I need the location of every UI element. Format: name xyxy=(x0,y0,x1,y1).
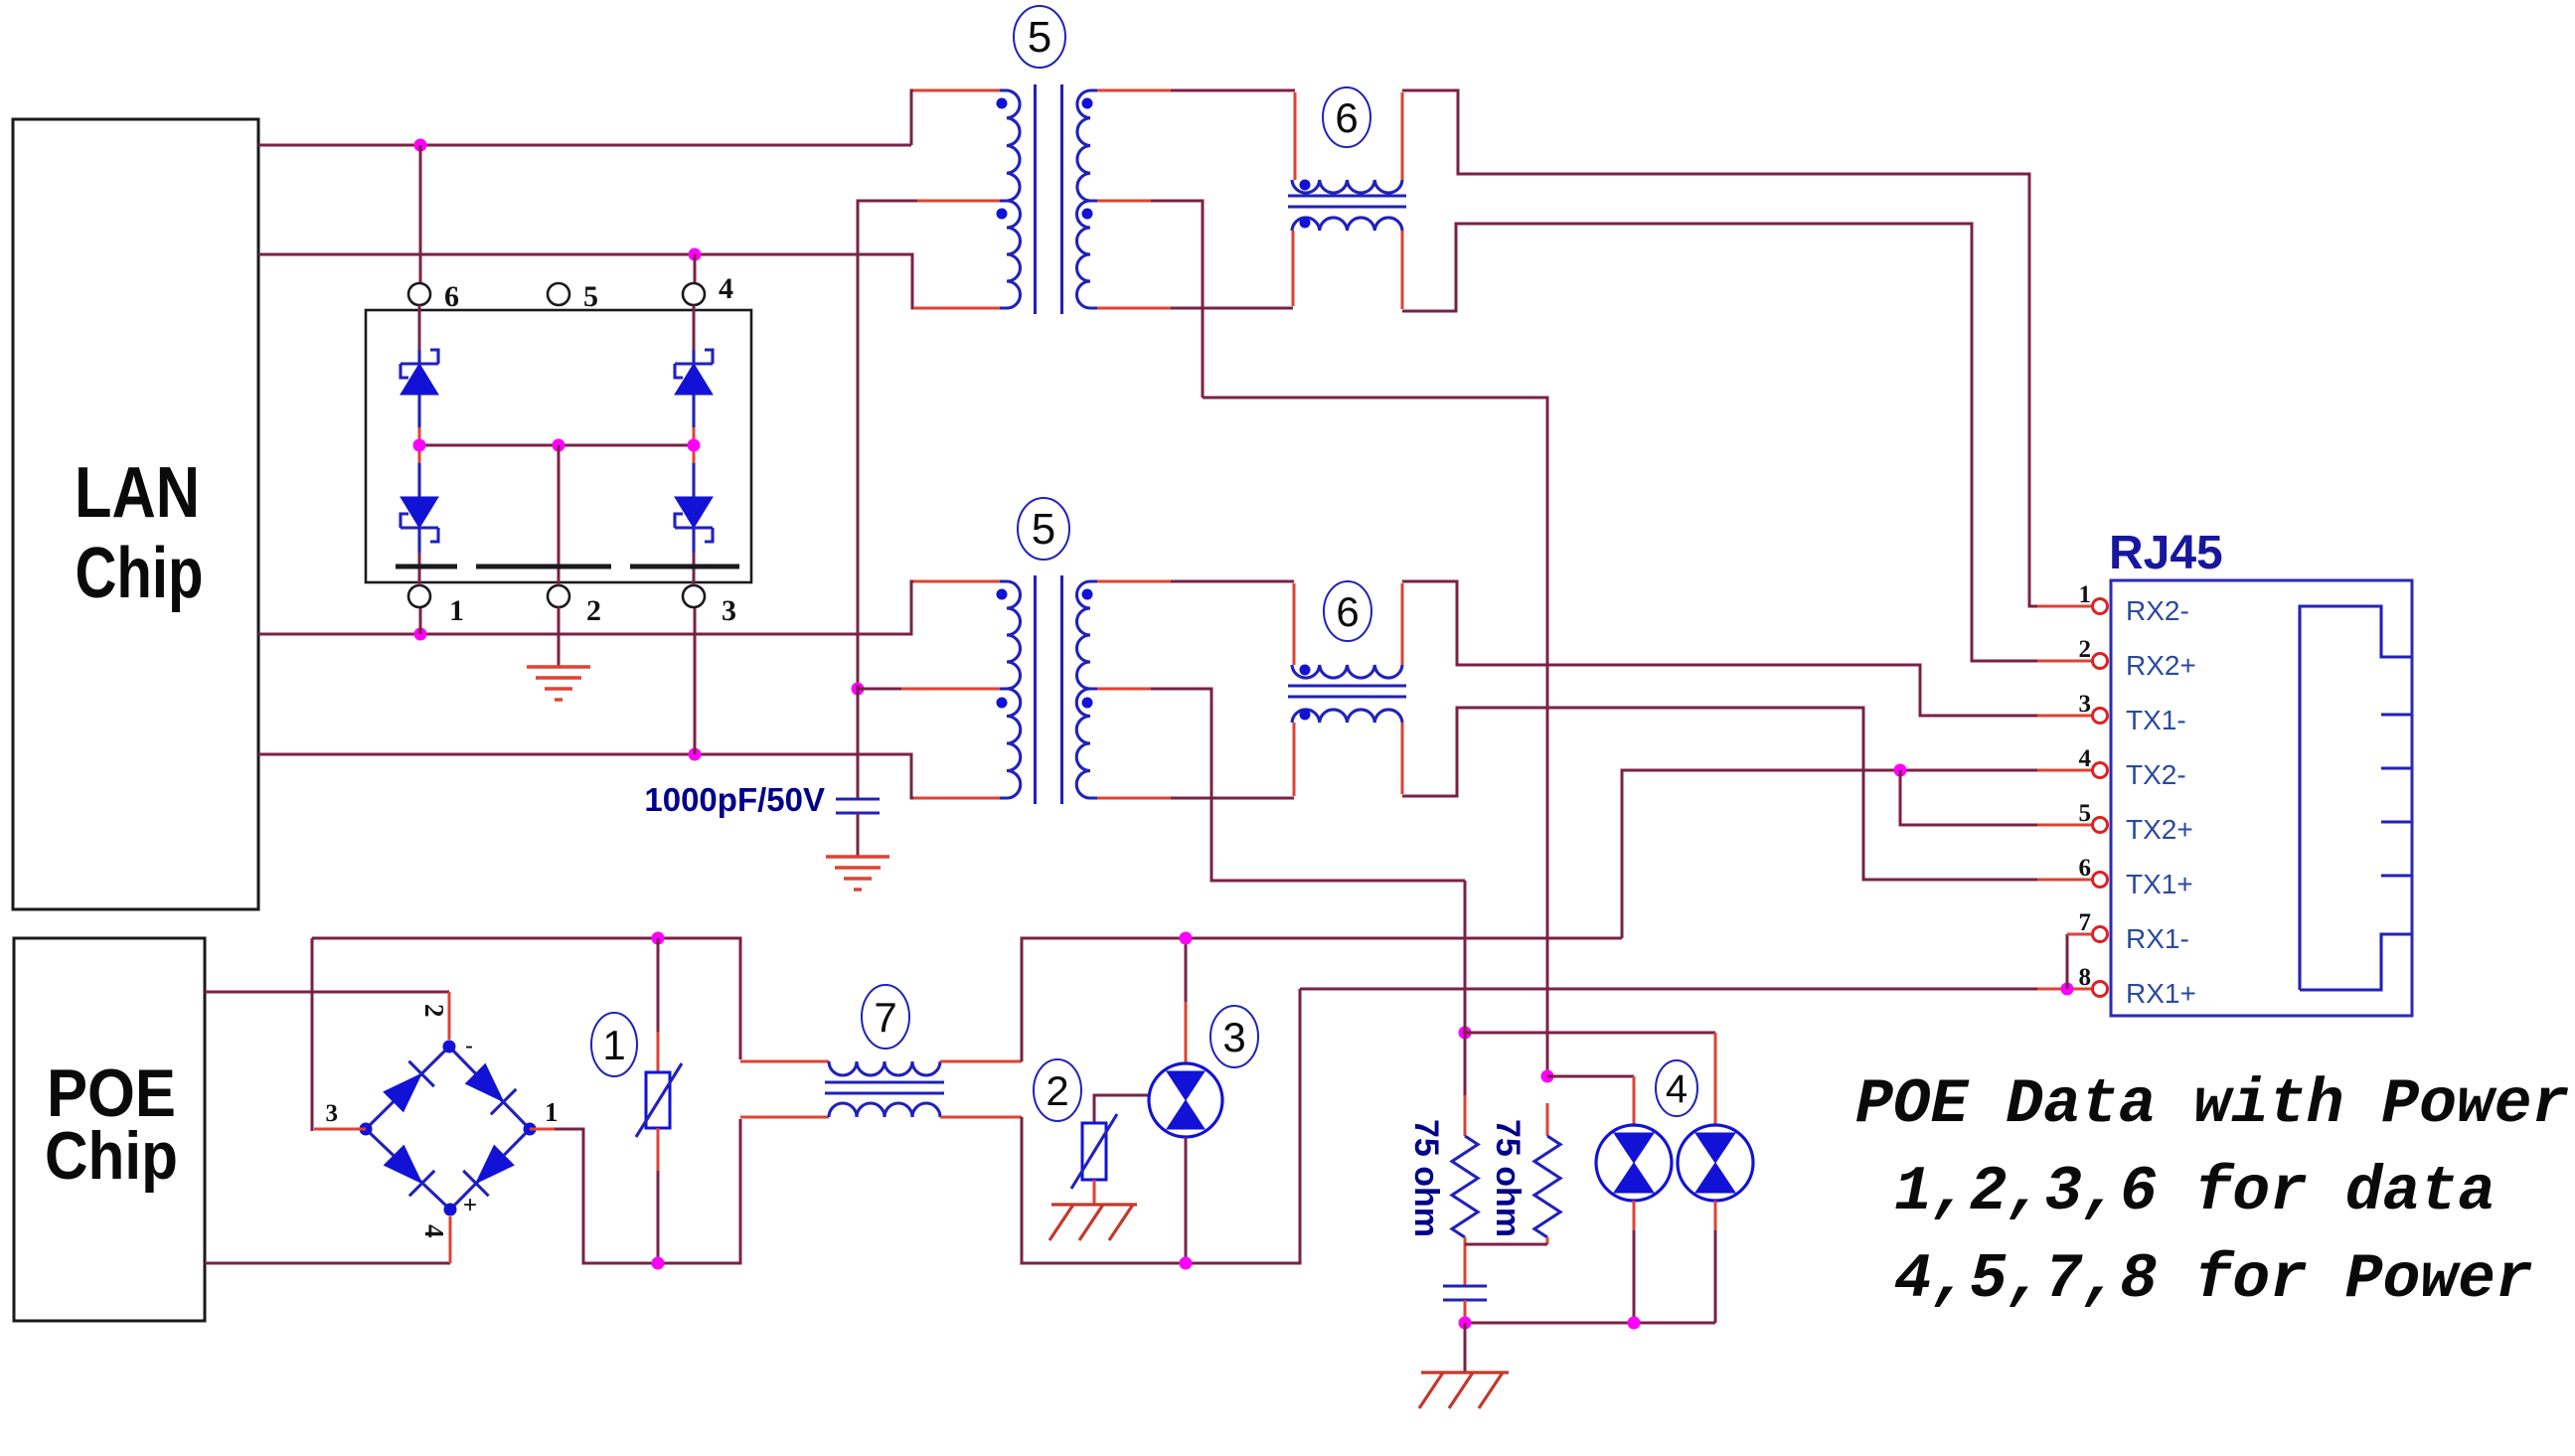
svg-text:-: - xyxy=(465,1033,473,1059)
RJ45 pin 6 xyxy=(2079,855,2193,899)
transformer T2 label 5 xyxy=(1018,498,1069,560)
RJ45 connector J1 xyxy=(2109,527,2412,1016)
svg-text:RX2+: RX2+ xyxy=(2126,650,2196,681)
capacitor C1 1000pF xyxy=(644,781,880,857)
varistor RV2 xyxy=(1071,1095,1151,1205)
svg-text:TX2+: TX2+ xyxy=(2126,814,2193,845)
wire LED2 branch xyxy=(1465,1033,1715,1125)
common mode choke L1 xyxy=(1288,180,1406,232)
bridge rectifier B1 xyxy=(326,1004,559,1238)
dashed substrate marks in D1 xyxy=(396,565,739,569)
RJ45 jack profile xyxy=(2300,606,2411,990)
wire D1 pin2 to ground xyxy=(558,607,561,667)
pin 1 of D1 xyxy=(408,585,464,627)
resistor R2 75 ohm xyxy=(1465,1103,1560,1244)
wire LAN pin4 to T2 bottom xyxy=(258,754,1000,798)
svg-text:7: 7 xyxy=(2079,909,2092,936)
node E junction center taps xyxy=(852,683,865,800)
wire LED1 branch xyxy=(1547,1076,1634,1125)
svg-text:RX1-: RX1- xyxy=(2126,923,2189,954)
svg-text:Chip: Chip xyxy=(76,534,204,613)
transformer T1 xyxy=(997,84,1098,314)
svg-text:4: 4 xyxy=(2079,745,2092,772)
wire LAN pin3 to T2 top xyxy=(258,581,1000,634)
svg-text:5: 5 xyxy=(583,280,598,313)
svg-text:POE Data with Power: POE Data with Power xyxy=(1855,1069,2569,1140)
choke L2 label 6 xyxy=(1324,581,1371,641)
pin 2 of D1 xyxy=(548,585,601,627)
node F junction varistor RV1 top xyxy=(652,932,665,945)
svg-text:3: 3 xyxy=(2079,691,2092,718)
resistor R1 75 ohm xyxy=(1407,1093,1478,1286)
svg-text:5: 5 xyxy=(1028,13,1051,62)
wire POE bottom output to bridge pin4 xyxy=(205,1216,450,1263)
node B junction LAN wire2 / D-array pin4 xyxy=(689,248,702,284)
wire T2 bottom right to L2 xyxy=(1097,723,1294,798)
varistor RV1 label 1 xyxy=(591,1013,637,1076)
wire L2 top output to RJ45 pin3 xyxy=(1402,581,2093,716)
svg-text:RX1+: RX1+ xyxy=(2126,978,2196,1009)
svg-text:2: 2 xyxy=(2079,636,2092,663)
TVS diode array D1 xyxy=(366,310,751,582)
svg-text:2: 2 xyxy=(586,594,601,627)
zener diode Z1 upper-left in D1 xyxy=(401,305,438,445)
node H junction TVS D2 top xyxy=(1180,932,1193,945)
svg-text:RX2-: RX2- xyxy=(2126,595,2189,626)
node K junction R2 top / LED1 branch xyxy=(1541,1070,1554,1083)
svg-text:4: 4 xyxy=(719,272,733,305)
svg-text:75 ohm: 75 ohm xyxy=(1407,1119,1445,1237)
RJ45 pin 2 xyxy=(2079,636,2196,681)
LED D4 xyxy=(1678,1125,1753,1323)
chassis ground below C2 xyxy=(1419,1373,1509,1408)
varistor RV1 xyxy=(636,938,682,1263)
pin 3 of D1 xyxy=(683,585,736,627)
svg-text:1: 1 xyxy=(545,1097,559,1127)
svg-text:3: 3 xyxy=(326,1100,339,1127)
wire bridge pin1 to bottom rail xyxy=(530,1117,829,1263)
wire POE top output to bridge pin2 xyxy=(205,992,449,1040)
RJ45 pin 8 xyxy=(2079,964,2196,1009)
LAN chip U1 xyxy=(13,119,258,909)
svg-text:1,2,3,6 for data: 1,2,3,6 for data xyxy=(1894,1157,2495,1227)
wire choke L3 bottom right to bottom rail xyxy=(940,989,1300,1263)
svg-text:6: 6 xyxy=(1336,588,1359,635)
wire L1 bottom output to RJ45 pin2 xyxy=(1402,224,2093,661)
wire T1 top right to L1 xyxy=(1097,90,1295,180)
svg-text:5: 5 xyxy=(1032,505,1055,554)
wire power to RJ45 pins 7 and 8 xyxy=(1300,934,2093,996)
note text POE Data with Power xyxy=(1855,1069,2569,1140)
wire T1 center tap right down xyxy=(1097,201,1203,398)
svg-text:6: 6 xyxy=(444,280,459,313)
choke L1 label 6 xyxy=(1323,87,1370,147)
node C junction LAN wire3 / D-array pin1 xyxy=(414,607,427,641)
POE chip U2 xyxy=(14,938,205,1321)
svg-text:7: 7 xyxy=(874,994,896,1041)
transformer T2 xyxy=(997,575,1098,804)
TVS diode D2 xyxy=(1149,938,1222,1263)
RJ45 pin 5 xyxy=(2079,800,2193,845)
svg-text:6: 6 xyxy=(1335,94,1358,141)
svg-text:3: 3 xyxy=(722,594,736,627)
node A junction LAN wire1 / D-array pin6 xyxy=(414,139,427,284)
RJ45 pin 3 xyxy=(2079,691,2186,735)
svg-text:2: 2 xyxy=(1046,1067,1068,1114)
pin 5 of D1 xyxy=(548,280,598,313)
wire T2 center tap right down xyxy=(1097,689,1465,881)
svg-text:1: 1 xyxy=(449,594,464,627)
svg-text:6: 6 xyxy=(2079,855,2092,882)
wire L2 bottom output to RJ45 pin6 xyxy=(1402,708,2093,880)
svg-text:3: 3 xyxy=(1222,1014,1245,1060)
wire T1 center tap left xyxy=(858,201,1000,685)
node I junction TVS D2 bottom xyxy=(1180,1257,1193,1270)
note text 4,5,7,8 for Power xyxy=(1894,1244,2533,1315)
node J junction R1 top / LED2 branch xyxy=(1459,881,1472,1095)
LED D3 xyxy=(1596,1125,1672,1323)
wire power to RJ45 pins 4 and 5 xyxy=(1622,764,2093,939)
RJ45 pin 7 xyxy=(2079,909,2189,954)
wire L1 top output to RJ45 pin1 xyxy=(1402,90,2093,606)
wire C2 to chassis ground xyxy=(1464,1323,1467,1373)
LED pair label 4 xyxy=(1656,1060,1697,1116)
wire bridge pin3 to rail xyxy=(312,938,366,1131)
svg-text:1: 1 xyxy=(2079,581,2092,608)
svg-text:LAN: LAN xyxy=(75,453,200,533)
svg-text:2: 2 xyxy=(419,1004,449,1018)
ground earth symbol below C1 xyxy=(826,857,889,890)
node G junction varistor RV1 bottom xyxy=(652,1257,665,1270)
svg-text:4: 4 xyxy=(419,1224,449,1238)
svg-text:4: 4 xyxy=(1666,1067,1688,1111)
svg-text:RJ45: RJ45 xyxy=(2109,527,2223,579)
zener diode Z4 lower-right in D1 xyxy=(675,445,713,585)
zener diode Z2 lower-left in D1 xyxy=(401,445,438,585)
pin 6 of D1 xyxy=(408,280,459,313)
svg-text:TX2-: TX2- xyxy=(2126,759,2186,790)
svg-text:Chip: Chip xyxy=(45,1118,178,1194)
TVS diode D2 label 3 xyxy=(1210,1006,1258,1067)
zener diode Z3 upper-right in D1 xyxy=(675,305,713,445)
wire choke L3 top right to power rail xyxy=(940,938,1622,1061)
svg-text:1000pF/50V: 1000pF/50V xyxy=(644,781,825,818)
wire T1 bottom right to L1 xyxy=(1097,231,1293,308)
choke L3 label 7 xyxy=(862,985,909,1049)
RJ45 pin 4 xyxy=(2079,745,2186,790)
wire T1 center tap power branch xyxy=(1203,398,1547,1076)
svg-text:1: 1 xyxy=(602,1022,625,1068)
wire middle rail of D1 xyxy=(413,439,701,586)
varistor RV2 label 2 xyxy=(1034,1059,1081,1121)
svg-text:5: 5 xyxy=(2079,800,2092,827)
wire LAN pin2 to T1 bottom xyxy=(258,254,1000,308)
wire T2 center tap left xyxy=(858,688,1000,691)
svg-text:75 ohm: 75 ohm xyxy=(1489,1119,1527,1237)
wire LAN pin1 to T1 top xyxy=(258,90,1000,145)
RJ45 pin 1 xyxy=(2079,581,2189,626)
wire rail bridge side to choke L3 top xyxy=(312,938,829,1061)
common mode choke L2 xyxy=(1288,665,1406,724)
common mode choke L3 xyxy=(825,1061,944,1117)
svg-text:8: 8 xyxy=(2079,964,2092,991)
wire LED return rail xyxy=(1459,1317,1716,1330)
wire T2 top right to L2 xyxy=(1097,581,1294,665)
svg-text:TX1+: TX1+ xyxy=(2126,869,2193,899)
pin 4 of D1 xyxy=(683,272,733,305)
transformer T1 label 5 xyxy=(1014,6,1065,68)
ground earth symbol below D1 pin2 xyxy=(527,667,590,700)
chassis ground below RV2 xyxy=(1049,1205,1137,1240)
node D junction LAN wire4 / D-array pin3 xyxy=(689,607,702,761)
svg-text:4,5,7,8 for Power: 4,5,7,8 for Power xyxy=(1894,1244,2533,1315)
svg-text:TX1-: TX1- xyxy=(2126,705,2186,735)
note text 1,2,3,6 for data xyxy=(1894,1157,2495,1227)
svg-text:+: + xyxy=(463,1192,477,1218)
capacitor C2 xyxy=(1443,1286,1487,1323)
